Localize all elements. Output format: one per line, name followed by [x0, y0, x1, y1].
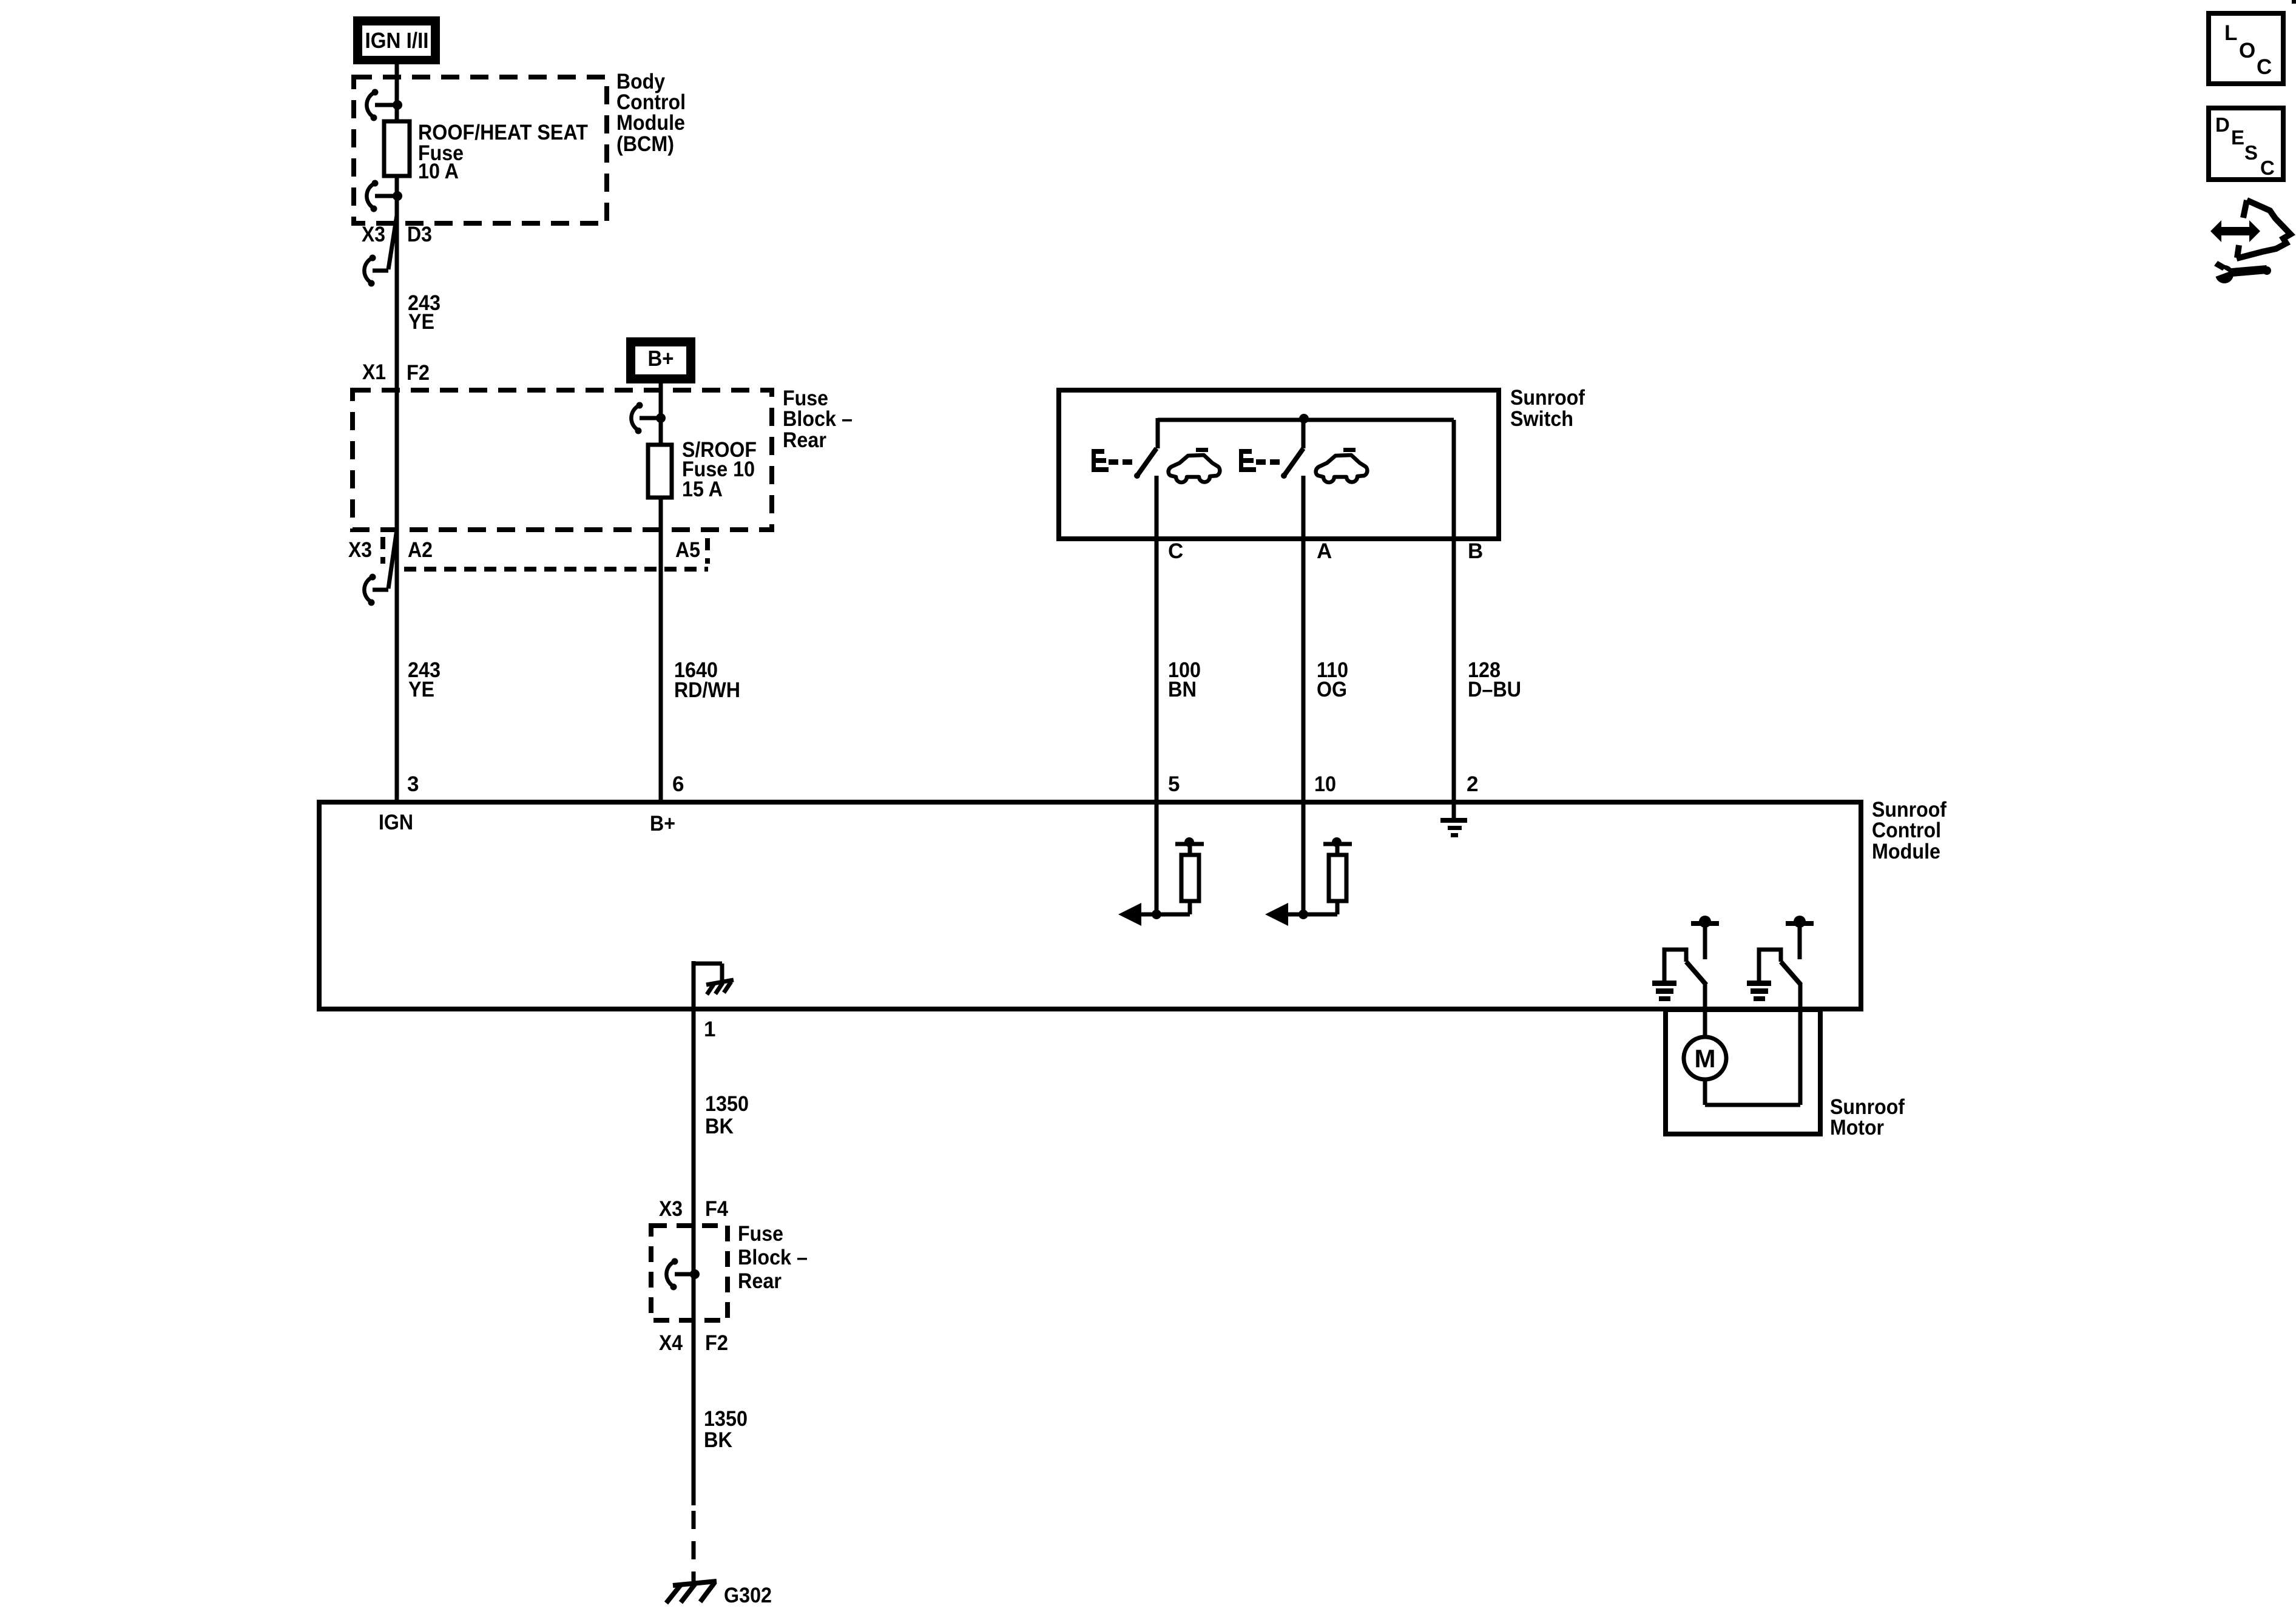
Sunroof Motor box	[1666, 1010, 1820, 1134]
chassis ground G302 symbol	[666, 1581, 717, 1603]
wire label 1350 BK (upper)	[705, 1092, 749, 1138]
motor M1 circle	[1684, 1037, 1726, 1079]
svg-text:YE: YE	[408, 678, 434, 701]
svg-text:Module: Module	[616, 111, 685, 135]
svg-text:C: C	[2260, 157, 2275, 179]
connector row dashed ticks and base X3 A2 A5	[383, 537, 708, 569]
page corner artifact	[2292, 0, 2296, 4]
svg-text:Rear: Rear	[738, 1269, 782, 1293]
Fuse Block - Rear dashed box	[353, 390, 772, 530]
svg-text:YE: YE	[408, 310, 434, 334]
wire label 1640 RD/WH	[674, 658, 740, 702]
wire B+ feed 1640 RD/WH vertical	[659, 383, 663, 802]
car icon 2 (sunroof tilt)	[1316, 448, 1368, 482]
svg-text:C: C	[2257, 55, 2272, 79]
switch 2 (open/close) blade and contacts	[1281, 420, 1303, 479]
adjust icon component outline	[2237, 200, 2291, 258]
fuse ROOF/HEAT SEAT 10 A	[384, 121, 410, 176]
wire label 128 D-BU	[1468, 658, 1521, 701]
label Fuse Block - Rear (lower)	[738, 1222, 808, 1293]
wire pin 1 ground 1350 BK	[692, 1009, 696, 1505]
relay contact K1 (motor drive A)	[1664, 916, 1719, 1039]
Sunroof Control Module box	[319, 802, 1861, 1009]
wire dashed to ground G302	[692, 1511, 696, 1585]
svg-text:X4: X4	[659, 1331, 683, 1355]
junction node in lower fuse block	[690, 1269, 700, 1279]
svg-text:BK: BK	[705, 1115, 734, 1138]
switch common bus wire	[1158, 418, 1454, 448]
label Sunroof Switch	[1510, 386, 1585, 431]
svg-text:B+: B+	[648, 346, 674, 371]
svg-text:Switch: Switch	[1510, 407, 1573, 431]
relay contact K2 (motor drive B)	[1759, 916, 1814, 1105]
svg-text:X3: X3	[348, 538, 372, 562]
chassis ground symbol at pin 1	[706, 980, 734, 994]
svg-text:D–BU: D–BU	[1468, 678, 1521, 701]
adjust icon wrench	[2207, 260, 2271, 283]
signal arrow pin 10 (to logic)	[1265, 903, 1303, 926]
svg-text:IGN: IGN	[379, 811, 413, 834]
svg-text:X1: X1	[362, 360, 386, 384]
svg-text:E: E	[2231, 126, 2244, 149]
svg-text:F2: F2	[407, 361, 430, 385]
adjust icon double arrow	[2210, 220, 2260, 242]
label switch pins C A B	[1168, 539, 1483, 563]
label Body Control Module (BCM)	[616, 70, 686, 156]
svg-text:Rear: Rear	[783, 428, 826, 452]
svg-text:3: 3	[407, 772, 419, 796]
svg-text:A: A	[1317, 539, 1332, 563]
svg-text:1: 1	[704, 1018, 715, 1041]
svg-text:10 A: 10 A	[418, 160, 459, 183]
label Fuse Block - Rear (upper)	[783, 387, 853, 452]
svg-text:O: O	[2239, 39, 2255, 62]
connector X3 D3 pigtail clip	[364, 215, 397, 287]
label X3 D3	[362, 223, 432, 246]
svg-text:Sunroof: Sunroof	[1510, 386, 1585, 410]
svg-text:X3: X3	[362, 223, 385, 246]
signal ground at module pin 2	[1440, 802, 1467, 837]
connector clip at BCM fuse top	[366, 89, 396, 121]
svg-text:S: S	[2244, 141, 2258, 164]
svg-text:BN: BN	[1168, 678, 1197, 701]
module internal ground elbow pin 1	[692, 961, 722, 1009]
wire IGN feed 243 YE vertical	[395, 64, 399, 802]
junction node above S/ROOF fuse	[656, 413, 666, 423]
svg-text:2: 2	[1467, 772, 1478, 796]
svg-text:Fuse: Fuse	[738, 1222, 783, 1246]
junction node above ROOF/HEAT SEAT fuse	[393, 100, 402, 110]
wire label 100 BN	[1168, 658, 1201, 701]
svg-text:Control: Control	[1872, 819, 1941, 842]
svg-text:D: D	[2215, 113, 2230, 136]
wire label 243 YE (upper)	[408, 291, 441, 334]
wire switch A to module pin 10 (110 OG)	[1302, 476, 1306, 802]
resistor R2 pull-up pin 10	[1303, 837, 1352, 914]
power flag B+	[626, 337, 695, 383]
LOC legend box	[2209, 13, 2283, 84]
Fuse Block - Rear lower dashed box	[651, 1226, 728, 1320]
svg-text:1350: 1350	[705, 1092, 749, 1116]
module internal wire pin 5	[1155, 802, 1159, 914]
connector clip in lower fuse block	[666, 1258, 693, 1291]
svg-text:M: M	[1695, 1044, 1716, 1073]
svg-text:6: 6	[672, 772, 684, 796]
svg-text:10: 10	[1314, 772, 1336, 796]
svg-text:A5: A5	[675, 538, 700, 562]
wire label 243 YE (lower)	[408, 658, 441, 701]
svg-text:Block –: Block –	[738, 1246, 808, 1269]
DESC legend box	[2209, 108, 2283, 180]
svg-text:5: 5	[1168, 772, 1180, 796]
label X3 A2 A5	[348, 538, 700, 562]
wire label 110 OG	[1317, 658, 1348, 701]
signal arrow pin 5 (to logic)	[1118, 903, 1156, 926]
svg-text:Module: Module	[1872, 840, 1940, 863]
wire label 1350 BK (lower)	[704, 1407, 748, 1452]
junction node switch common	[1299, 414, 1309, 424]
svg-text:Block –: Block –	[783, 407, 853, 431]
svg-text:(BCM): (BCM)	[616, 132, 674, 156]
svg-text:15 A: 15 A	[682, 478, 723, 501]
switch 2 actuator E and dashes	[1239, 449, 1280, 472]
label Sunroof Motor	[1830, 1095, 1905, 1139]
connector clip at S/ROOF fuse top	[631, 402, 659, 434]
Sunroof Switch box	[1059, 390, 1499, 539]
signal ground relay K1	[1652, 981, 1676, 1001]
signal ground relay K2	[1747, 981, 1771, 1001]
junction node pin 10 network	[1298, 910, 1308, 919]
label X1 F2	[362, 360, 430, 385]
label ROOF/HEAT SEAT Fuse 10 A	[418, 121, 588, 183]
svg-text:A2: A2	[408, 538, 433, 562]
label Sunroof Control Module	[1872, 798, 1947, 863]
svg-text:X3: X3	[659, 1197, 683, 1221]
svg-text:B: B	[1468, 539, 1483, 563]
label X4 F2	[659, 1331, 728, 1355]
svg-text:D3: D3	[407, 223, 432, 246]
car icon 1 (sunroof slide)	[1169, 448, 1220, 482]
connector clip at BCM fuse bottom	[366, 180, 396, 212]
label X3 F4	[659, 1197, 728, 1221]
power flag IGN I/II	[353, 16, 440, 64]
svg-text:B+: B+	[650, 812, 675, 836]
junction node pin 5 network	[1152, 910, 1161, 919]
fuse S/ROOF Fuse 10 15 A	[648, 445, 672, 498]
junction node below ROOF/HEAT SEAT fuse	[393, 191, 402, 201]
svg-text:F4: F4	[705, 1197, 728, 1221]
svg-text:L: L	[2224, 21, 2237, 45]
switch 1 (open/close) blade and contacts	[1134, 448, 1156, 479]
wire switch C to module pin 5 (100 BN)	[1155, 476, 1159, 802]
switch 1 actuator E and dashes	[1092, 449, 1132, 472]
svg-text:Motor: Motor	[1830, 1116, 1884, 1139]
resistor R1 pull-up pin 5	[1156, 837, 1204, 914]
svg-text:C: C	[1168, 539, 1183, 563]
wire motor leads	[1705, 1079, 1800, 1105]
svg-text:IGN I/II: IGN I/II	[365, 28, 429, 53]
connector X3 A2 pigtail clip	[364, 530, 397, 606]
svg-text:1350: 1350	[704, 1407, 748, 1431]
Body Control Module (BCM) dashed box	[354, 77, 607, 223]
svg-text:OG: OG	[1317, 678, 1347, 701]
svg-text:F2: F2	[705, 1331, 728, 1355]
module internal wire pin 10	[1302, 802, 1306, 914]
wire switch B to module pin 2 (128 D-BU)	[1452, 420, 1456, 802]
label S/ROOF Fuse 10 15 A	[682, 438, 757, 501]
svg-text:RD/WH: RD/WH	[674, 678, 740, 702]
svg-text:G302: G302	[724, 1584, 772, 1607]
svg-text:BK: BK	[704, 1428, 732, 1452]
